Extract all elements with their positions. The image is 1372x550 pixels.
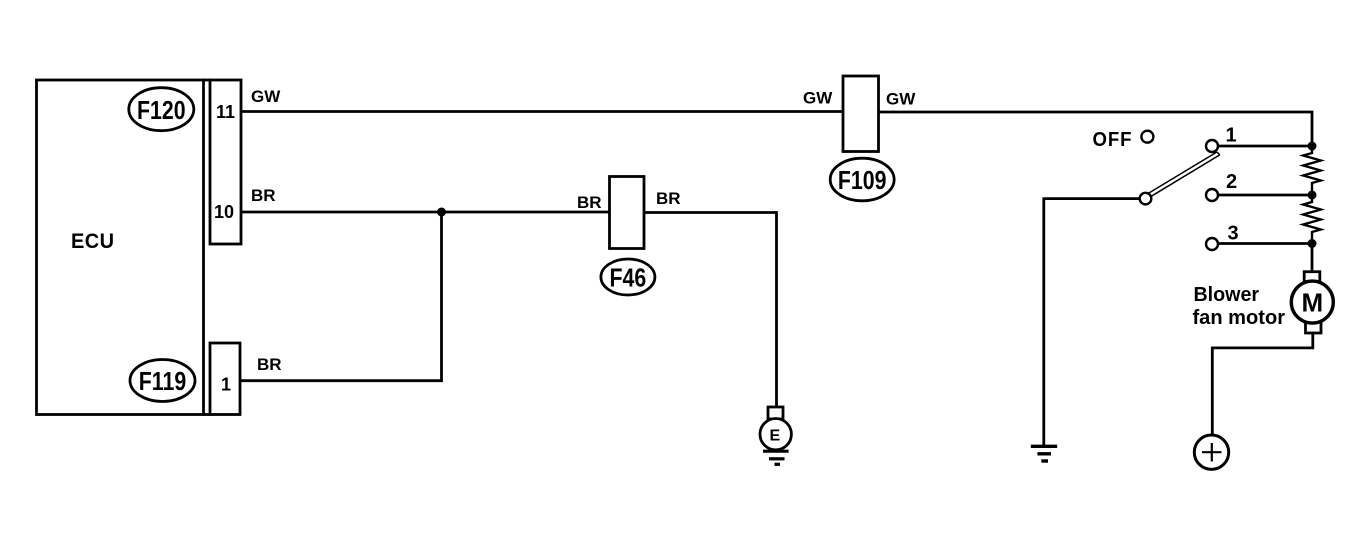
connector block pin 1 (204, 343, 241, 415)
svg-text:F109: F109 (838, 166, 887, 196)
wire contact1 to junction1 (1218, 145, 1312, 148)
wire contact2 to junction2 (1218, 194, 1312, 197)
wire pivot to ground (1044, 199, 1140, 446)
junction node 1 (1308, 142, 1317, 151)
wire label GW at pin 11 (251, 87, 281, 106)
svg-text:10: 10 (214, 202, 234, 222)
svg-text:F46: F46 (610, 264, 647, 294)
wire label BR right of F46 (656, 189, 681, 208)
svg-text:11: 11 (216, 102, 235, 122)
wire motor to battery (1212, 333, 1313, 435)
wire junction down to pin1 row (240, 212, 442, 381)
motor bottom terminal (1306, 322, 1322, 334)
wire GW pin11 to F109 (241, 110, 843, 113)
svg-text:OFF: OFF (1093, 129, 1133, 151)
wire GW F109 to top right corner (879, 112, 1313, 145)
contact 1 circle (1206, 140, 1218, 152)
svg-text:F119: F119 (139, 367, 186, 397)
ground at switch (1031, 446, 1057, 461)
svg-text:BR: BR (656, 189, 681, 208)
contact 1 label (1226, 125, 1237, 147)
connector F109 (830, 76, 894, 201)
wire label GW right of F109 (886, 90, 916, 109)
wire junction3 to motor (1311, 244, 1314, 273)
pin 11 label (216, 102, 235, 122)
connector F119 (130, 360, 195, 402)
switch pivot contact (1140, 193, 1152, 205)
ground E circle (760, 419, 791, 450)
svg-text:1: 1 (221, 375, 231, 395)
svg-text:2: 2 (1226, 171, 1237, 193)
wire BR pin10 to F46 (241, 211, 610, 214)
switch OFF contact circle (1141, 131, 1153, 143)
pin 10 label (214, 202, 234, 222)
wire label BR at pin 10 (251, 186, 276, 205)
switch OFF label (1093, 129, 1133, 151)
contact 3 circle (1206, 238, 1218, 250)
motor top terminal (1304, 272, 1320, 284)
contact 2 circle (1206, 189, 1218, 201)
switch blade (1148, 152, 1220, 196)
svg-text:ECU: ECU (71, 230, 115, 254)
svg-text:GW: GW (803, 89, 833, 108)
svg-text:E: E (770, 428, 781, 445)
contact 3 label (1228, 223, 1239, 245)
wire contact3 to junction3 (1218, 242, 1312, 245)
junction node 2 (1308, 191, 1317, 200)
Blower fan motor label (1193, 284, 1286, 329)
svg-text:BR: BR (257, 355, 282, 374)
svg-text:F120: F120 (137, 96, 186, 126)
connector F46 (601, 177, 655, 296)
ground E bars (763, 451, 789, 464)
ECU label (71, 230, 115, 254)
svg-text:GW: GW (251, 87, 281, 106)
junction node at BR wire (437, 208, 446, 217)
ground E body connector (768, 407, 783, 419)
svg-text:M: M (1302, 288, 1324, 318)
resistor R1 between junction1 and junction2 (1303, 146, 1321, 195)
svg-text:Blower: Blower (1194, 284, 1260, 306)
svg-text:1: 1 (1226, 125, 1237, 147)
wire label BR at pin 1 (257, 355, 282, 374)
wire BR F46 to ground E (644, 213, 777, 408)
motor M circle (1291, 281, 1333, 323)
svg-text:BR: BR (251, 186, 276, 205)
svg-text:3: 3 (1228, 223, 1239, 245)
junction node 3 (1308, 239, 1317, 248)
svg-text:fan motor: fan motor (1193, 307, 1286, 329)
svg-text:BR: BR (577, 193, 602, 212)
pin 1 label (221, 375, 231, 395)
connector block pins 11/10 (204, 80, 242, 244)
wire label GW left of F109 (803, 89, 833, 108)
svg-text:GW: GW (886, 90, 916, 109)
wire label BR left of F46 (577, 193, 602, 212)
resistor R2 between junction2 and junction3 (1303, 195, 1321, 244)
connector F120 (129, 88, 194, 131)
ECU box (37, 80, 204, 415)
contact 2 label (1226, 171, 1237, 193)
battery positive terminal (1194, 435, 1228, 469)
